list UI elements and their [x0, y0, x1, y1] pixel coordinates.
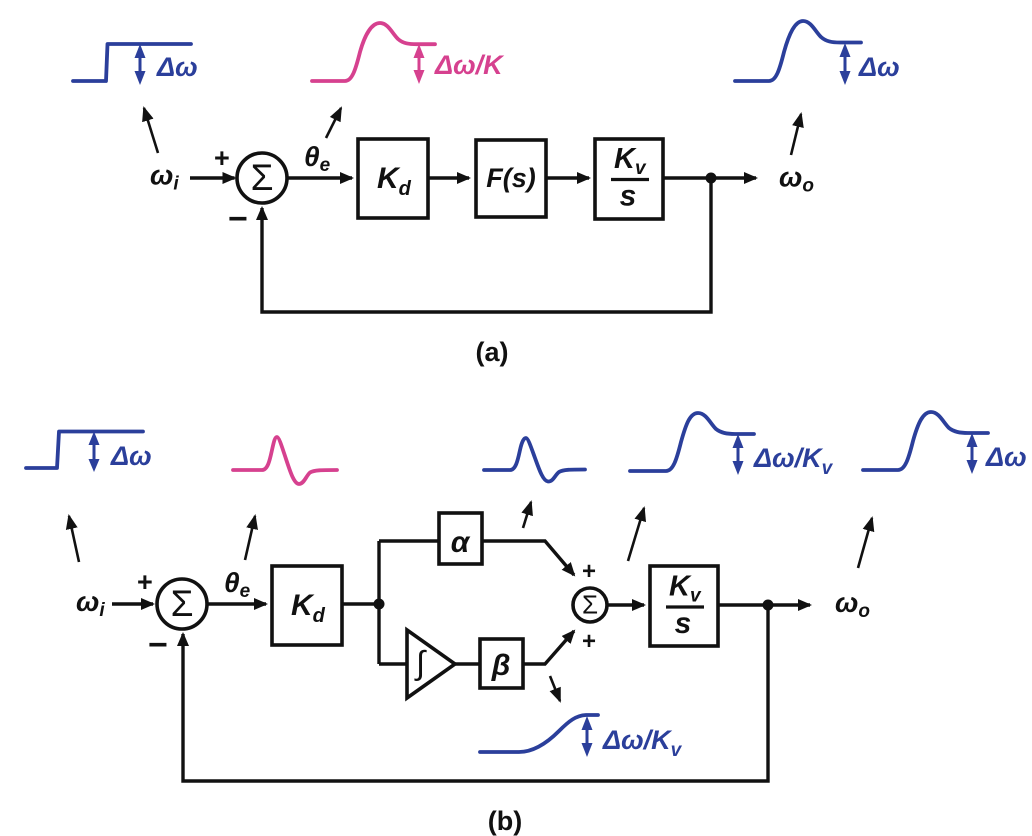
- summer Σ2 (b): [573, 588, 607, 622]
- pointer arrow to θe waveform (b): [245, 516, 255, 560]
- svg-text:Σ: Σ: [582, 590, 598, 620]
- svg-text:s: s: [620, 180, 637, 213]
- wire: Kv/s to output ωo (b): [718, 603, 810, 606]
- wave: output frequency response blue (b): [863, 412, 988, 470]
- measure arrow Δω (b output): [967, 433, 978, 474]
- svg-text:θe: θe: [304, 141, 331, 176]
- svg-text:α: α: [451, 526, 471, 559]
- svg-text:Σ: Σ: [171, 583, 194, 624]
- svg-text:θe: θe: [224, 567, 251, 602]
- pointer arrow to output waveform (b): [858, 518, 872, 568]
- pointer arrow to input waveform (b): [69, 516, 79, 562]
- svg-text:ωi: ωi: [150, 160, 179, 195]
- svg-text:F(s): F(s): [486, 163, 536, 193]
- measure arrow for input step height (a): [135, 44, 146, 85]
- wave: phase error response pink (a): [312, 23, 435, 81]
- pointer arrow to integral waveform (b): [550, 676, 560, 701]
- block Kv/s (a): [595, 139, 663, 219]
- svg-text:ωi: ωi: [76, 586, 105, 621]
- svg-text:ωo: ωo: [835, 587, 870, 622]
- wire: α to summer2 (b): [482, 541, 574, 575]
- svg-text:∫: ∫: [414, 644, 427, 681]
- svg-text:Kd: Kd: [291, 589, 326, 627]
- svg-text:Δω: Δω: [985, 442, 1027, 472]
- wire: summer to Kd (a): [286, 176, 352, 179]
- svg-text:+: +: [137, 567, 153, 597]
- svg-text:s: s: [675, 607, 692, 640]
- block Kd (a): [358, 139, 428, 218]
- svg-text:Δω: Δω: [110, 441, 152, 471]
- block F(s) (a): [476, 140, 546, 217]
- pointer arrow to vco input waveform (b): [628, 508, 644, 561]
- wire: integrator to β (b): [455, 662, 480, 665]
- pointer arrow to θe waveform (a): [326, 108, 341, 138]
- measure arrow Δω (a output): [840, 43, 851, 85]
- wave: input frequency step (b): [26, 432, 143, 469]
- wave: proportional path doublet blue (b): [484, 438, 585, 482]
- block β (b): [480, 639, 523, 688]
- block Kv/s (b): [650, 566, 718, 646]
- measure arrow for input step height (b): [89, 432, 100, 473]
- wave: phase error doublet pink (b): [233, 437, 337, 484]
- wire: feedback loop (a): [262, 178, 711, 312]
- wire: ωi to summer (a): [190, 176, 235, 179]
- junction node on output (b): [763, 600, 774, 611]
- wire: feedback loop (b): [183, 605, 768, 781]
- svg-text:+: +: [214, 143, 230, 173]
- wire: Kd to branch junction (b): [342, 602, 379, 605]
- wave: input frequency step (a): [73, 44, 191, 81]
- wave: integral path rising curve blue (b): [480, 715, 598, 752]
- measure arrow Δω/K (a): [414, 44, 425, 84]
- svg-text:−: −: [228, 200, 248, 238]
- svg-text:β: β: [491, 649, 511, 682]
- svg-text:Δω/Kv: Δω/Kv: [753, 443, 834, 479]
- junction node after Kd (b): [374, 599, 385, 610]
- wave: output frequency response blue (a): [735, 21, 861, 81]
- junction node on output (a): [706, 173, 717, 184]
- wire: ωi to summer (b): [112, 602, 153, 605]
- block α (b): [439, 513, 482, 564]
- wire: branch to α block (b): [379, 539, 439, 542]
- wave: vco control step response blue (b): [630, 413, 754, 471]
- wire: branch vertical (b): [377, 541, 380, 664]
- svg-text:ωo: ωo: [779, 162, 814, 197]
- svg-text:Kd: Kd: [377, 162, 412, 200]
- svg-text:Δω: Δω: [858, 52, 900, 82]
- summer Σ1 (a): [237, 153, 287, 203]
- svg-text:−: −: [148, 626, 168, 664]
- wire: β to summer2 (b): [523, 631, 574, 664]
- pointer arrow to output waveform (a): [791, 114, 801, 155]
- measure arrow Δω/Kv (b mid): [733, 434, 744, 475]
- block Kd (b): [272, 566, 342, 645]
- measure arrow Δω/Kv (b bottom): [582, 716, 593, 757]
- wire: Kv/s to output ωo (a): [663, 176, 756, 179]
- svg-text:(b): (b): [488, 806, 522, 836]
- svg-text:Δω: Δω: [156, 52, 198, 82]
- svg-text:Kv: Kv: [614, 143, 647, 179]
- wire: summer to Kd (b): [206, 602, 266, 605]
- wire: F(s) to Kv/s (a): [546, 176, 589, 179]
- svg-text:+: +: [582, 558, 596, 585]
- wire: summer2 to Kv/s (b): [607, 603, 644, 606]
- svg-text:Kv: Kv: [669, 571, 702, 607]
- svg-text:Δω/K: Δω/K: [434, 50, 505, 80]
- svg-text:Σ: Σ: [251, 157, 274, 198]
- summer Σ1 (b): [157, 579, 207, 629]
- svg-text:(a): (a): [476, 337, 509, 367]
- wire: Kd to F(s) (a): [428, 176, 469, 179]
- svg-text:Δω/Kv: Δω/Kv: [602, 725, 683, 761]
- pointer arrow to input waveform (a): [144, 108, 158, 153]
- integrator block (b): [407, 630, 455, 698]
- pointer arrow to proportional waveform (b): [523, 502, 531, 528]
- svg-text:+: +: [582, 628, 596, 655]
- wire: branch to integrator (b): [379, 662, 406, 665]
